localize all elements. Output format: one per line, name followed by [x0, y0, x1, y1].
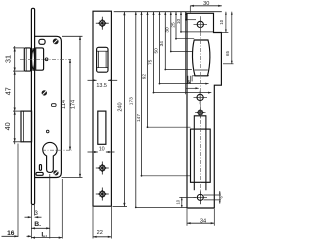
cascade dimension 92 [141, 12, 190, 128]
cascade dimension 34 [159, 12, 192, 71]
svg-text:L.: L. [41, 231, 47, 238]
dimension 47 label [4, 87, 13, 95]
svg-text:30: 30 [203, 1, 209, 7]
extension line cylinder axis [49, 174, 51, 239]
svg-text:34: 34 [200, 218, 206, 224]
latch bevel lens [32, 48, 35, 71]
svg-text:92: 92 [141, 74, 147, 80]
latch bolt side view head [24, 48, 30, 71]
svg-text:22: 22 [97, 230, 103, 236]
screw S1 top [53, 39, 59, 45]
extension line faceplate back [34, 205, 36, 216]
dimension 240 faceplate height [113, 12, 128, 207]
svg-text:147: 147 [136, 114, 142, 122]
dimension 34 bottom width [187, 209, 214, 226]
extension line case back [61, 179, 63, 239]
extension line deadbolt face [17, 144, 19, 238]
svg-text:114: 114 [61, 100, 67, 109]
right side dimension 65 [223, 12, 234, 64]
lock case side view [35, 36, 62, 177]
dimension 114 [69, 59, 71, 150]
dimension 13.5 [88, 79, 118, 89]
bottom right small dimension 6 [203, 191, 223, 204]
dimension 3 faceplate thickness [25, 211, 42, 218]
extension line left of strike plate [185, 12, 187, 94]
screw S3 bottom [53, 170, 58, 175]
latch axis node circle [45, 58, 48, 61]
svg-text:10: 10 [219, 19, 224, 24]
svg-text:13.5: 13.5 [96, 83, 107, 89]
dimension 10 deadbolt width [88, 146, 115, 153]
small vertical slot [39, 165, 41, 171]
latch window front [192, 40, 210, 76]
extension line faceplate front [30, 205, 32, 239]
cascade dimension 30 [165, 12, 193, 53]
top mounting hole [194, 17, 208, 31]
svg-text:B.: B. [34, 221, 41, 228]
cascade dimension 173 [129, 12, 187, 209]
cascade dimension unlabeled [185, 12, 196, 21]
svg-text:10: 10 [175, 199, 180, 204]
cascade dimension 75 [148, 12, 212, 94]
dimension 40 label [3, 122, 12, 130]
deadbolt side view [21, 111, 32, 142]
screw hole cross right view [195, 107, 205, 117]
top slot in case [39, 39, 45, 44]
dimension 16 deadbolt throw [2, 230, 32, 237]
euro cylinder profile [43, 142, 57, 172]
bottom hole [194, 191, 208, 205]
svg-text:47: 47 [4, 87, 13, 95]
svg-text:173: 173 [129, 97, 135, 105]
faceplate side view [31, 8, 34, 204]
dimension B backset [31, 221, 49, 230]
small slot upper right of cylinder [52, 104, 57, 107]
screw hole cross middle [96, 162, 109, 175]
bottom left small dimension 10 [175, 197, 196, 207]
dimension 22 faceplate width [93, 207, 111, 239]
faceplate front view [93, 11, 111, 206]
svg-text:30: 30 [165, 27, 171, 33]
svg-text:16: 16 [7, 230, 15, 237]
svg-text:174: 174 [71, 100, 77, 109]
latch axis centerline [20, 58, 71, 60]
svg-text:65: 65 [225, 51, 230, 56]
dimension L case depth [31, 231, 62, 238]
svg-text:240: 240 [118, 102, 124, 111]
dimension 31 label [4, 55, 13, 63]
screw hole cross bottom [96, 188, 109, 201]
svg-text:25: 25 [170, 22, 176, 28]
strike body front view [187, 13, 221, 208]
right side dimension 10 step [219, 12, 228, 33]
svg-text:10: 10 [99, 146, 105, 152]
narrow slot rect [194, 116, 206, 191]
dimension chain 31/47/40 [13, 46, 24, 144]
svg-text:75: 75 [148, 59, 154, 65]
cascade dimension 10 [176, 12, 214, 33]
top reference line [114, 11, 222, 13]
svg-text:40: 40 [3, 122, 12, 130]
cascade dimension 25 [170, 12, 194, 40]
wide rect cylinder cover [191, 129, 211, 182]
cascade dimension 50 [154, 12, 209, 85]
small hole in case [46, 130, 49, 133]
small horizontal slot [36, 172, 43, 175]
svg-text:50: 50 [154, 48, 160, 54]
dimension 30 top width [190, 1, 222, 13]
latch bolt front view [97, 47, 108, 72]
cylinder axis centerline [42, 149, 72, 151]
dimension 174 [62, 36, 83, 177]
deadbolt cutout front view [98, 111, 106, 144]
svg-text:31: 31 [4, 55, 13, 63]
cascade dimension 147 [136, 12, 191, 177]
screw S2 middle [42, 90, 47, 95]
latch body in case [36, 48, 44, 70]
small dimension cluster under latch [186, 76, 199, 89]
screw hole cross top [96, 17, 109, 30]
vertical centerline right view [199, 16, 201, 204]
svg-text:10: 10 [176, 19, 182, 25]
middle hole [194, 91, 208, 105]
svg-text:34: 34 [159, 41, 165, 47]
